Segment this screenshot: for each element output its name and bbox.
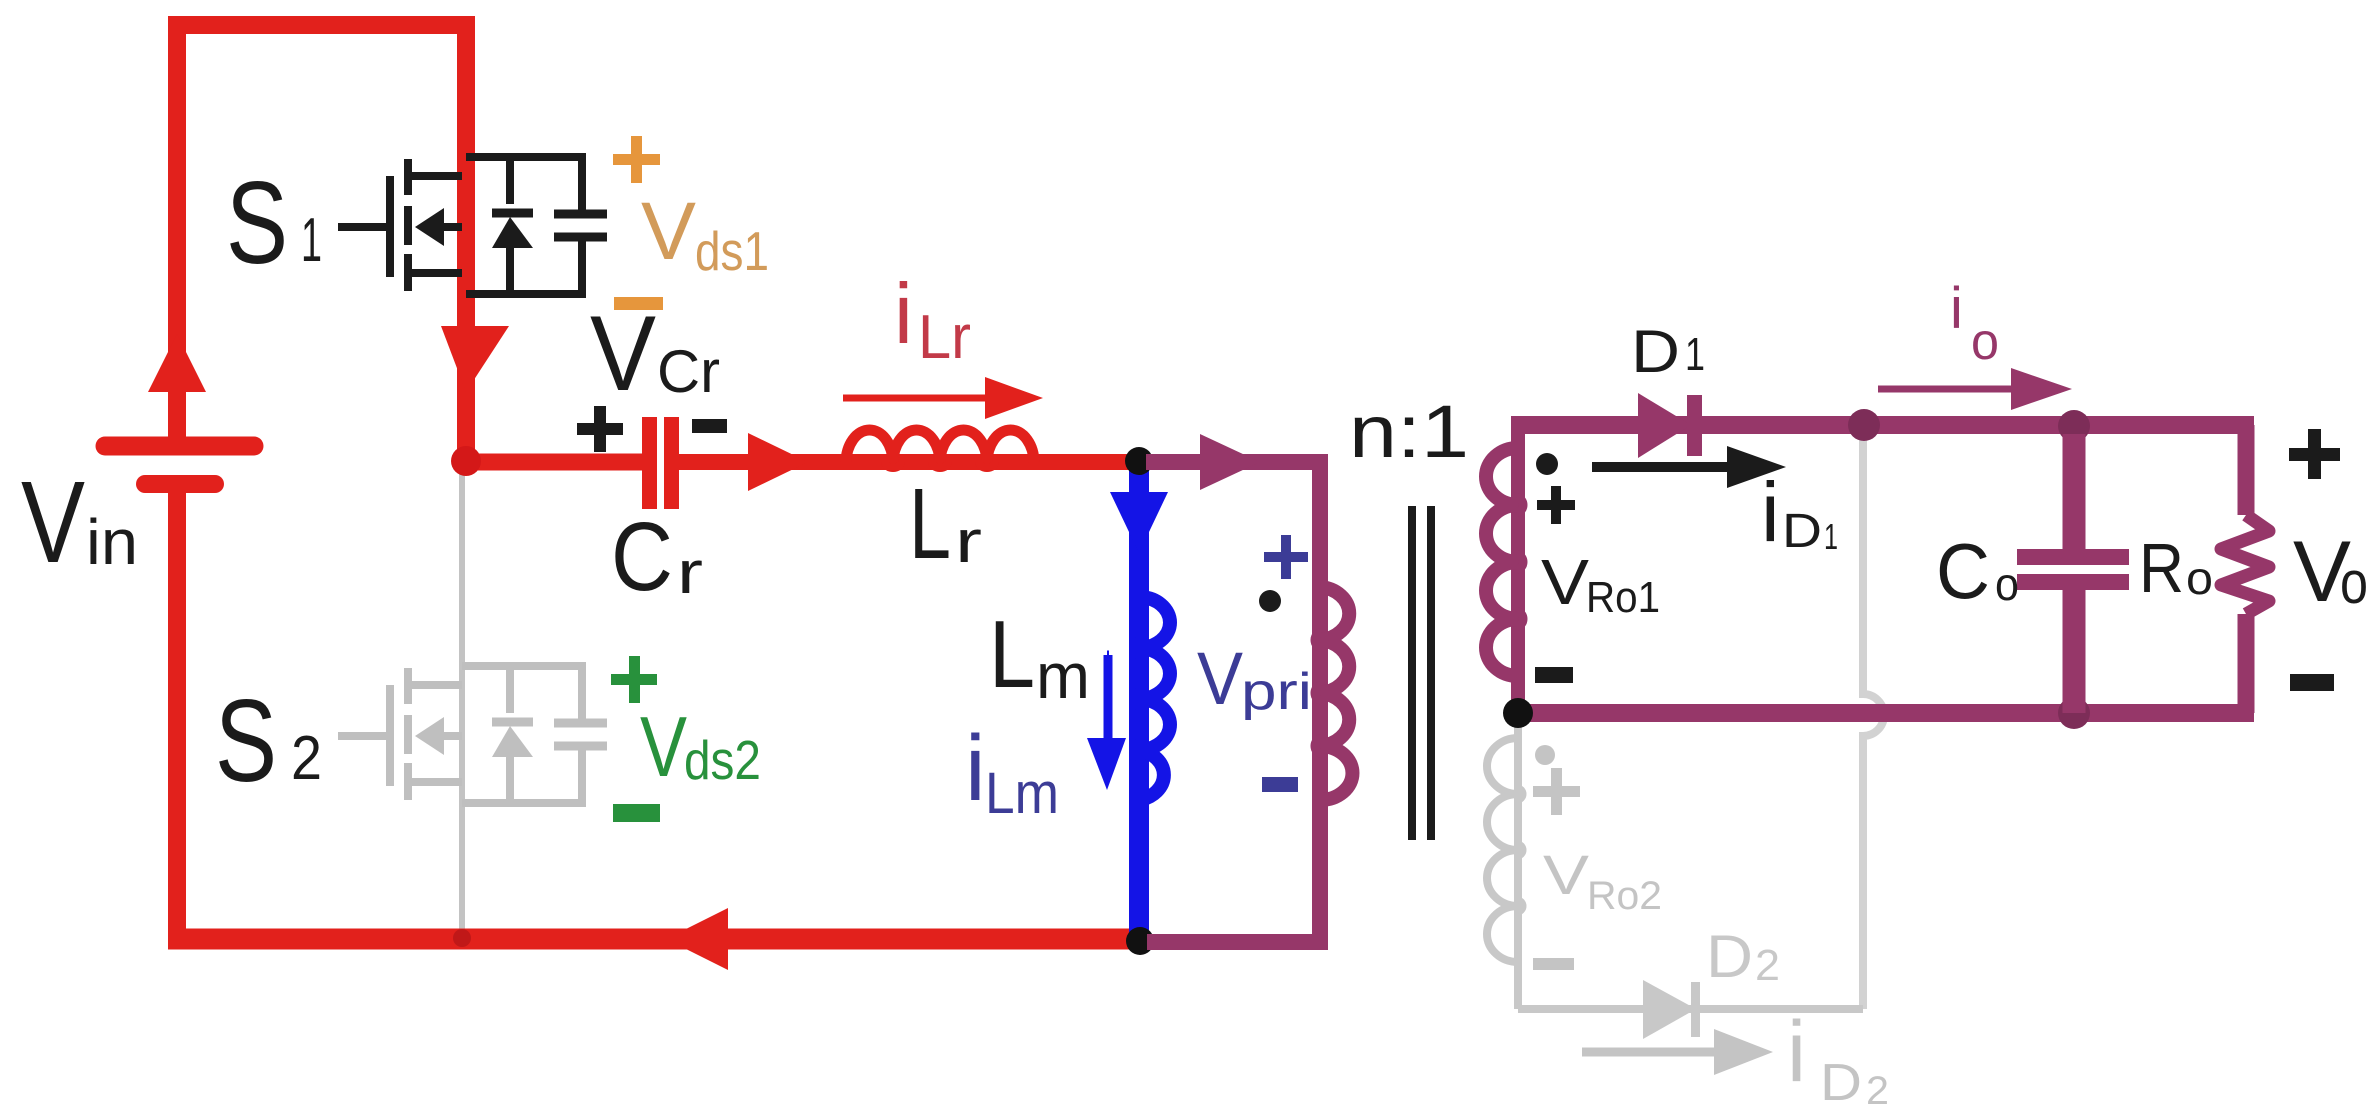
svg-text:i: i (894, 267, 913, 362)
svg-text:2: 2 (1755, 941, 1780, 990)
node B (Lr/Lm/primary junction) (1125, 447, 1153, 475)
plus sign VCr (577, 406, 623, 452)
label Lr (black) (909, 468, 982, 580)
svg-text:r: r (955, 508, 982, 575)
polarity dot primary (black) (1259, 590, 1281, 612)
svg-text:Ro2: Ro2 (1587, 874, 1662, 918)
current arrow iLr (thin red) (843, 377, 1043, 419)
svg-text:V: V (1197, 637, 1244, 720)
svg-text:i: i (1950, 276, 1963, 341)
minus sign Vds2 (green) (613, 804, 660, 822)
label iD2 (gray) (1787, 1004, 1889, 1105)
label Ro (black) (2139, 529, 2213, 607)
wire: S2 drain-source thin gray link (459, 470, 465, 930)
wire: node A to Cr (red rail) (466, 454, 642, 471)
label VCr (black) (590, 293, 720, 413)
inductor Lm coil (blue) (1134, 597, 1170, 800)
capacitor Cr plates (red) (642, 417, 679, 509)
current arrowhead down on Lm (blue) (1110, 492, 1168, 553)
svg-text:Lm: Lm (985, 761, 1059, 826)
inductor Lr coil (red) (846, 430, 1034, 468)
current arrow iD2 (gray) (1582, 1029, 1773, 1075)
svg-text:pri: pri (1241, 663, 1312, 721)
wire: secondary bottom rail (purple) (1518, 704, 2254, 722)
wire: gray D2 return line with hop over output rail (1863, 439, 1884, 1009)
minus sign VCr (692, 419, 727, 433)
label Vpri (navy) (1197, 637, 1312, 721)
svg-text:D: D (1706, 923, 1753, 990)
label Co (black) (1936, 527, 2019, 615)
svg-text:Cr: Cr (657, 338, 720, 405)
diode D2 (gray) (1643, 980, 1700, 1039)
label Vds1 (orange) (641, 186, 769, 282)
svg-text:D: D (1820, 1054, 1862, 1105)
winding secondary 2 (gray, inactive) (1487, 726, 1863, 1009)
plus sign Vpri (navy) (1264, 535, 1308, 579)
transistor S2 (gray MOSFET symbol) (338, 666, 607, 803)
minus sign VRo1 (black) (1535, 667, 1573, 683)
svg-text:C: C (1936, 527, 1990, 615)
minus sign Vds1 (orange) (614, 297, 663, 310)
svg-text:V: V (1541, 546, 1589, 618)
label Vds2 (green) (640, 700, 761, 795)
svg-text:L: L (909, 468, 951, 580)
plus sign Vds2 (green) (611, 656, 657, 703)
current arrow left on return rail (666, 908, 728, 970)
svg-text:S: S (226, 157, 288, 288)
svg-text:o: o (2186, 552, 2213, 604)
svg-text:V: V (640, 700, 687, 795)
label VRo2 (gray) (1543, 843, 1662, 918)
current arrow io (purple) (1878, 368, 2072, 410)
wire: Cr to node B rail (red) (679, 454, 1139, 470)
svg-text:L: L (989, 601, 1035, 708)
svg-text:D: D (1631, 318, 1680, 385)
resistor Ro zigzag (purple) (2221, 515, 2269, 614)
transistor S1 (black MOSFET symbol) (338, 157, 607, 294)
node G (Co bottom junction, purple) (2058, 697, 2090, 729)
svg-text:o: o (2340, 549, 2368, 616)
wire: Lm branch (blue) (1129, 466, 1149, 940)
node D (secondary return, black) (1503, 698, 1533, 728)
label iLr (crimson) (894, 267, 971, 372)
capacitor Co plates (purple) (2017, 549, 2129, 590)
label io (purple) (1950, 276, 1999, 371)
svg-text:1: 1 (301, 206, 322, 275)
svg-text:V: V (1543, 843, 1590, 906)
label Lm (black) (989, 601, 1090, 712)
svg-text:C: C (611, 502, 673, 611)
label iD1 (black) (1761, 465, 1838, 559)
node F (Co top junction, purple) (2058, 410, 2090, 442)
minus sign Vpri (navy) (1262, 777, 1298, 792)
node H (S2 source on return rail, dark red) (453, 929, 471, 947)
transformer core lines (1408, 506, 1435, 840)
plus sign VRo2 (gray) (1533, 768, 1580, 815)
svg-text:D: D (1782, 505, 1822, 558)
wire: bottom return rail (red) (168, 929, 1140, 950)
wire: input loop (red) Vin top to S1 drain (177, 25, 466, 452)
svg-text:ds2: ds2 (684, 729, 761, 791)
node E (D1 cathode junction, purple) (1848, 409, 1880, 441)
svg-text:r: r (677, 539, 703, 606)
battery Vin negative plate (145, 475, 215, 493)
current arrow up into battery top (148, 334, 206, 392)
current arrow iLm (thin blue) (1087, 655, 1126, 790)
wire: battery to bottom rail (red) (168, 490, 186, 939)
svg-text:o: o (1995, 558, 2019, 610)
wire: primary loop (purple) (1146, 462, 1320, 942)
label Vo (black) (2293, 524, 2368, 620)
battery Vin positive plate (105, 437, 254, 456)
label D2 (1706, 923, 1780, 990)
svg-text:R: R (2139, 529, 2184, 607)
label D1 (black) (1631, 318, 1705, 385)
svg-text:n:1: n:1 (1349, 390, 1469, 473)
minus sign VRo2 (gray) (1533, 958, 1574, 970)
plus sign Vo (black) (2289, 429, 2340, 479)
current arrowhead into primary (purple) (1200, 434, 1260, 490)
winding secondary 1 (purple coil) (1486, 424, 1523, 713)
plus sign Vds1 (orange) (613, 136, 660, 183)
svg-text:Lr: Lr (918, 303, 971, 372)
svg-text:2: 2 (291, 724, 322, 793)
wire: secondary top rail (purple) (1511, 416, 2254, 434)
node A (switch midpoint, red) (451, 446, 481, 476)
winding primary (purple coil) (1315, 587, 1352, 800)
svg-text:1: 1 (1685, 328, 1705, 380)
svg-text:2: 2 (1866, 1069, 1889, 1105)
polarity dot secondary 1 (black) (1536, 453, 1558, 475)
wire: output right leg (purple) (2238, 425, 2255, 713)
polarity dot secondary 2 (gray) (1535, 745, 1555, 765)
svg-text:Ro1: Ro1 (1586, 573, 1660, 622)
svg-text:ds1: ds1 (695, 220, 769, 282)
label VRo1 (black) (1541, 546, 1660, 622)
label n:1 (black) (1349, 390, 1469, 473)
label Cr (black) (611, 502, 703, 611)
current arrow down into node A (441, 326, 509, 392)
svg-text:V: V (21, 457, 85, 587)
svg-text:o: o (1971, 313, 1999, 371)
svg-text:i: i (1761, 465, 1780, 559)
svg-text:i: i (965, 716, 986, 820)
label S1 (226, 157, 322, 288)
wire: S1 source drop (red) (457, 300, 475, 455)
svg-text:V: V (590, 293, 656, 413)
svg-text:1: 1 (1824, 516, 1838, 557)
label iLm (navy) (965, 716, 1059, 826)
diode D1 (purple) (1638, 393, 1702, 458)
capacitor Co vertical wire (purple) (2063, 434, 2086, 713)
svg-text:i: i (1787, 1004, 1806, 1100)
label S2 (215, 675, 322, 806)
svg-text:V: V (641, 186, 696, 277)
current arrow iD1 (black) (1592, 446, 1786, 488)
node C (bottom junction) (1126, 927, 1154, 955)
svg-text:m: m (1036, 640, 1090, 712)
plus sign VRo1 (black) (1537, 486, 1575, 524)
minus sign Vo (black) (2290, 674, 2334, 691)
current arrowhead after Cr (748, 433, 808, 491)
label Vin (21, 457, 138, 587)
svg-text:in: in (86, 506, 138, 578)
svg-text:S: S (215, 675, 277, 806)
